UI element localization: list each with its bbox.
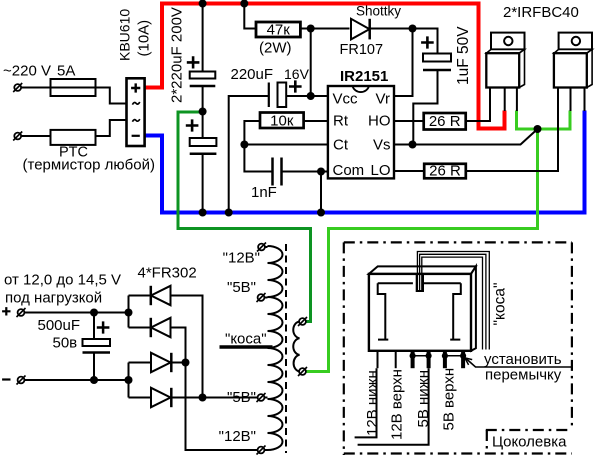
svg-text:50в: 50в bbox=[53, 335, 78, 352]
svg-text:"5В": "5В" bbox=[227, 389, 256, 406]
svg-text:500uF: 500uF bbox=[38, 317, 81, 334]
svg-text:Цоколевка: Цоколевка bbox=[492, 434, 567, 451]
svg-text:"5В": "5В" bbox=[227, 279, 256, 296]
svg-text:5A: 5A bbox=[57, 63, 75, 80]
svg-text:~220 V: ~220 V bbox=[3, 63, 51, 80]
svg-text:перемычку: перемычку bbox=[485, 367, 562, 384]
svg-text:2*IRFBC40: 2*IRFBC40 bbox=[503, 4, 579, 21]
svg-text:Vs: Vs bbox=[373, 137, 391, 154]
svg-text:установить: установить bbox=[484, 351, 562, 368]
svg-text:12В верхн: 12В верхн bbox=[389, 369, 406, 440]
svg-text:26 R: 26 R bbox=[429, 163, 461, 180]
svg-text:"коса": "коса" bbox=[225, 331, 267, 348]
svg-text:4*FR302: 4*FR302 bbox=[138, 265, 197, 282]
svg-text:HO: HO bbox=[368, 113, 391, 130]
svg-text:1nF: 1nF bbox=[251, 184, 277, 201]
svg-text:5В верхн: 5В верхн bbox=[441, 368, 458, 431]
svg-text:2*220uF 200V: 2*220uF 200V bbox=[169, 7, 186, 103]
svg-text:16V: 16V bbox=[284, 66, 310, 82]
svg-text:Vr: Vr bbox=[376, 91, 390, 108]
svg-text:47к: 47к bbox=[267, 22, 291, 39]
svg-text:IR2151: IR2151 bbox=[340, 68, 388, 85]
svg-text:Rt: Rt bbox=[333, 113, 349, 130]
svg-text:Shottky: Shottky bbox=[356, 4, 401, 19]
svg-text:10к: 10к bbox=[270, 113, 294, 130]
svg-text:Vcc: Vcc bbox=[333, 91, 359, 108]
svg-text:LO: LO bbox=[370, 162, 390, 179]
svg-text:(10A): (10A) bbox=[136, 20, 153, 57]
svg-text:5В нижн: 5В нижн bbox=[415, 370, 432, 428]
svg-text:(2W): (2W) bbox=[259, 40, 292, 57]
svg-text:Com: Com bbox=[333, 162, 365, 179]
svg-text:(термистор любой): (термистор любой) bbox=[23, 157, 155, 174]
svg-text:1uF 50V: 1uF 50V bbox=[455, 26, 472, 85]
svg-text:"12В": "12В" bbox=[223, 250, 260, 267]
svg-text:под нагрузкой: под нагрузкой bbox=[5, 290, 102, 307]
svg-text:от 12,0 до 14,5 V: от 12,0 до 14,5 V bbox=[4, 272, 121, 289]
svg-text:KBU610: KBU610 bbox=[117, 9, 133, 61]
svg-text:"коса": "коса" bbox=[492, 283, 509, 326]
svg-text:FR107: FR107 bbox=[340, 42, 384, 58]
svg-text:220uF: 220uF bbox=[231, 66, 274, 83]
svg-text:"12В": "12В" bbox=[219, 428, 256, 445]
svg-text:12В нижн: 12В нижн bbox=[364, 370, 381, 436]
svg-text:Ct: Ct bbox=[333, 137, 349, 154]
svg-text:26 R: 26 R bbox=[429, 113, 461, 130]
